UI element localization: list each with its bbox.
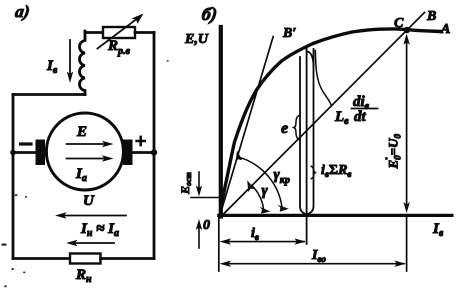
E_ост dim arrow lower: [198, 226, 200, 248]
wire coil-bottom horizontal: [13, 93, 85, 96]
svg-text:0: 0: [203, 218, 210, 233]
E_ост level tick: [191, 197, 223, 199]
rheostat arrow: [98, 18, 139, 49]
field winding coil: [79, 31, 85, 95]
arrow U: [62, 215, 126, 217]
wire right brush to vertical: [132, 151, 154, 154]
E0=U0 dimension line: [406, 40, 408, 207]
svg-text:U: U: [83, 193, 95, 209]
arrow I_a: [67, 158, 108, 160]
extension below C: [406, 217, 408, 271]
brush left: [36, 140, 46, 166]
minus terminal: [21, 142, 32, 145]
svg-text:В′: В′: [282, 26, 296, 41]
winding loop center line: [306, 49, 308, 245]
brace at e: [294, 116, 299, 140]
generator armature U1: [46, 113, 123, 190]
rheostat R_р.в body: [103, 27, 135, 38]
svg-text:γ: γ: [262, 183, 269, 199]
scan specks: [2, 60, 388, 287]
axis extension below origin: [218, 217, 220, 271]
wire right vertical: [153, 33, 156, 259]
x-axis: [219, 214, 452, 217]
brush right: [123, 140, 133, 166]
svg-text:dt: dt: [354, 109, 367, 125]
svg-text:C: C: [394, 16, 404, 31]
load resistor R_н: [70, 254, 101, 264]
svg-text:E,U: E,U: [184, 32, 209, 47]
winding loop top cap: [307, 52, 314, 67]
junction dot left: [10, 150, 16, 156]
winding loop right side: [307, 49, 314, 214]
junction dot right: [151, 149, 157, 155]
magnetization curve: [222, 29, 442, 203]
critical line to В': [221, 37, 274, 214]
wire bottom right: [101, 257, 155, 260]
I_в arrow: [69, 40, 71, 76]
point C dot: [404, 27, 410, 33]
wire coil-top to rheostat: [85, 31, 103, 34]
svg-text:В: В: [426, 9, 436, 24]
γ arc: [252, 185, 264, 210]
svg-text:б): б): [200, 4, 218, 25]
svg-text:a): a): [14, 2, 31, 21]
arrow E: [67, 143, 108, 145]
arrow I_н: [73, 242, 114, 244]
svg-text:А: А: [440, 22, 450, 37]
load line to В: [222, 13, 425, 216]
dimension I_во: [225, 263, 404, 265]
wire left vertical: [12, 95, 15, 259]
svg-text:E: E: [76, 124, 87, 140]
leader to L di/dt: [315, 51, 331, 107]
γ_кр arc: [239, 157, 282, 207]
wire rheostat to right: [135, 31, 154, 34]
svg-text:E0=U0: E0=U0: [386, 134, 403, 170]
y-axis: [219, 27, 223, 217]
svg-text:Iн ≈ Iа: Iн ≈ Iа: [80, 221, 119, 239]
plus terminal: [137, 137, 145, 145]
winding loop left side: [300, 57, 307, 214]
svg-text:e: e: [281, 120, 288, 137]
wire to left brush: [13, 151, 38, 154]
brace at i_вΣR_в: [311, 166, 316, 178]
E_ост dim arrow upper: [198, 172, 200, 190]
wire bottom left: [13, 257, 70, 260]
dimension i_в: [225, 241, 304, 243]
